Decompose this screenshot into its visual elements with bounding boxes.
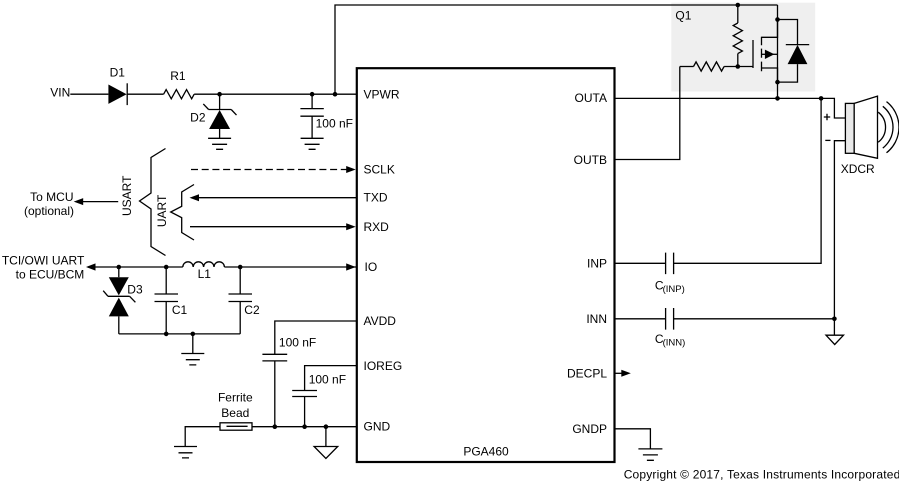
wire - terminal down to ground [834,141,845,336]
wire AVDD [275,321,357,354]
wire IOREG [305,366,357,391]
svg-text:D1: D1 [110,66,126,80]
svg-text:C2: C2 [244,303,260,317]
ferrite bead FB [218,391,253,431]
svg-text:100 nF: 100 nF [279,335,316,349]
svg-text:C1: C1 [172,303,188,317]
svg-text:(INP): (INP) [663,284,685,295]
svg-text:Ferrite: Ferrite [218,391,253,405]
capacitor C(INN) [655,308,685,349]
wire bottom of D3/C1/C2 [119,333,240,335]
capacitor 100nF (VPWR) [300,94,353,138]
capacitor 100nF (AVDD) [262,335,316,426]
svg-text:Q1: Q1 [675,8,691,22]
wire VPWR to top rail [335,5,778,94]
wire INP [615,262,666,264]
svg-text:100 nF: 100 nF [316,116,353,130]
svg-text:DECPL: DECPL [567,366,607,380]
svg-text:SCLK: SCLK [364,163,395,177]
TVS diode D3 [103,267,143,334]
wire GND [252,426,357,428]
zener diode D2 [190,94,236,138]
capacitor C1 [155,267,188,334]
wire Q1 drain/source vertical [777,5,779,98]
svg-text:To MCU: To MCU [30,190,73,204]
ground (GND pin, open triangle) [314,427,338,459]
ground (GNDP) [638,449,662,460]
node - terminal [825,139,830,141]
svg-text:to ECU/BCM: to ECU/BCM [16,268,85,282]
node junction dots on IO line [117,265,122,270]
UART brace [171,185,194,241]
svg-text:100 nF: 100 nF [309,373,346,387]
wire R1 to U1 VPWR [194,93,357,95]
ground (XDCR, open triangle) [826,335,844,344]
wire bead to ground [185,427,220,447]
wire OUTA [615,98,846,118]
resistor Q1 gate [680,62,753,71]
wire GNDP [615,429,651,449]
svg-text:IO: IO [365,260,378,274]
svg-text:D2: D2 [190,111,206,125]
svg-text:TCI/OWI UART: TCI/OWI UART [2,254,85,268]
svg-text:Copyright © 2017, Texas Instru: Copyright © 2017, Texas Instruments Inco… [624,467,899,481]
Q1 highlight box [671,3,815,92]
svg-text:INP: INP [587,257,607,271]
wire IO line [88,266,183,268]
svg-text:AVDD: AVDD [364,314,397,328]
resistor Q1 pull-up [733,5,742,67]
op-amp U1 PGA460 main block [357,68,615,462]
ground (ferrite bead) [174,447,197,458]
svg-text:VPWR: VPWR [364,87,400,101]
capacitor C(INP) [655,253,685,296]
USART brace [140,149,166,256]
diode Q1 body [778,20,810,83]
wire VIN to D1 [70,93,108,95]
svg-text:TXD: TXD [364,190,388,204]
wire RXD [190,226,347,228]
svg-text:R1: R1 [170,69,186,83]
capacitor 100nF (IOREG) [292,373,346,427]
wire SCLK dashed [191,169,347,171]
svg-text:VIN: VIN [50,85,70,99]
svg-text:GNDP: GNDP [572,422,607,436]
transducer XDCR [841,96,899,176]
ground (C1/C2) [181,334,204,365]
svg-text:RXD: RXD [364,220,390,234]
svg-text:D3: D3 [127,283,143,297]
node + terminal [824,114,830,120]
resistor R1 [164,69,195,99]
wire OUTB to gate resistor [615,67,680,160]
wire TXD [199,197,357,199]
ground (D2) [208,138,231,149]
svg-text:Bead: Bead [221,406,249,420]
ground (100nF VPWR) [301,138,324,149]
svg-text:L1: L1 [198,267,212,281]
svg-text:GND: GND [364,420,391,434]
svg-text:OUTB: OUTB [574,153,607,167]
svg-text:(optional): (optional) [24,204,74,218]
svg-text:XDCR: XDCR [841,162,875,176]
svg-text:IOREG: IOREG [364,359,403,373]
svg-text:USART: USART [120,175,134,216]
svg-text:OUTA: OUTA [575,91,607,105]
svg-text:(INN): (INN) [663,338,686,349]
diode D1 [108,66,127,106]
svg-text:UART: UART [155,194,169,227]
svg-text:PGA460: PGA460 [463,445,509,459]
inductor L1 [183,262,225,281]
transistor Q1 MOSFET [753,20,778,83]
node junction dots on VPWR rail [217,92,222,97]
wire D1 to R1 [127,93,163,95]
wire INN [615,318,666,320]
svg-text:INN: INN [586,312,607,326]
wire to MCU arrow [76,201,118,203]
capacitor C2 [229,267,260,334]
wire DECPL arrow [615,372,622,374]
